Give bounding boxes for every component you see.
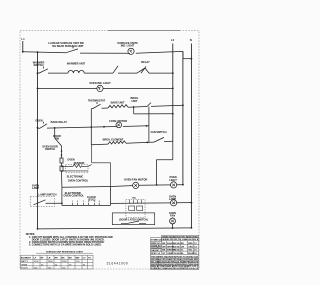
svg-text:TO: TO <box>88 258 91 260</box>
svg-text:WATTS: WATTS <box>21 260 29 263</box>
svg-text:FAN: FAN <box>170 213 175 217</box>
svg-text:WM: WM <box>76 258 80 260</box>
svg-text:WIRING DIAGRAM ELECTRIC RANGE: WIRING DIAGRAM ELECTRIC RANGE MODEL <box>162 236 199 239</box>
svg-text:OR: OR <box>181 247 185 249</box>
svg-text:RD: RD <box>181 243 185 245</box>
svg-text:1: 1 <box>72 201 73 203</box>
svg-text:L1: L1 <box>21 37 25 41</box>
svg-text:OVEN CONTROL: OVEN CONTROL <box>64 194 85 198</box>
svg-text:3. CONNECTORS WITH 12 GA WIRE: 3. CONNECTORS WITH 12 GA WIRE SHOWN IN B… <box>29 243 102 246</box>
svg-text:SERIES FEF352 P/N 316441000 RE: SERIES FEF352 P/N 316441000 REV A <box>162 238 198 241</box>
svg-text:ORG: ORG <box>188 247 193 249</box>
svg-text:OVEN: OVEN <box>67 157 74 161</box>
svg-text:BAKE UNIT: BAKE UNIT <box>111 101 125 105</box>
svg-text:N: N <box>190 38 192 42</box>
svg-text:THERMOSTAT: THERMOSTAT <box>88 98 106 102</box>
svg-text:VOLTS: VOLTS <box>21 268 28 270</box>
svg-text:316441000: 316441000 <box>107 262 129 266</box>
svg-text:BR: BR <box>162 250 166 252</box>
svg-text:5: 5 <box>94 201 95 203</box>
svg-text:14 GA: 14 GA <box>173 246 180 249</box>
svg-text:BK: BK <box>162 243 166 245</box>
svg-text:4: 4 <box>88 200 89 203</box>
svg-text:ELEMENT: ELEMENT <box>21 258 32 260</box>
svg-text:GAUGE 1: GAUGE 1 <box>151 249 161 252</box>
svg-text:2: 2 <box>77 201 78 203</box>
svg-text:(DOOR LATCH SWITCH): (DOOR LATCH SWITCH) <box>119 219 148 222</box>
svg-text:3: 3 <box>83 201 84 203</box>
svg-text:16 GA: 16 GA <box>173 249 180 252</box>
svg-text:BROIL ELEMENT: BROIL ELEMENT <box>103 138 124 142</box>
svg-text:SYMBOLS: SYMBOLS <box>151 240 162 242</box>
svg-text:OHMS: OHMS <box>21 264 28 266</box>
svg-text:14 GA: 14 GA <box>173 242 180 245</box>
svg-text:UNIT: UNIT <box>132 99 138 103</box>
svg-text:SENSOR: SENSOR <box>74 161 85 165</box>
svg-text:OVEN CONTROL: OVEN CONTROL <box>68 178 89 182</box>
svg-text:6: 6 <box>99 201 100 203</box>
svg-text:WH: WH <box>162 247 166 249</box>
svg-text:OVEN IND. LIGHT: OVEN IND. LIGHT <box>89 81 111 85</box>
svg-text:BR: BR <box>69 258 73 260</box>
svg-text:CONV. MOTOR: CONV. MOTOR <box>109 119 127 123</box>
svg-text:YEL: YEL <box>188 250 193 252</box>
svg-text:LAMP: LAMP <box>32 186 40 190</box>
svg-text:SURFACE UNIT RESISTANCE CHART: SURFACE UNIT RESISTANCE CHART <box>46 251 84 254</box>
svg-text:IND. LIGHT: IND. LIGHT <box>121 44 135 48</box>
svg-text:RH REAR SURFACE UNIT: RH REAR SURFACE UNIT <box>52 44 84 48</box>
svg-text:LAMP: LAMP <box>169 197 177 201</box>
svg-text:L2: L2 <box>171 38 175 42</box>
svg-text:BAKE RELAY: BAKE RELAY <box>51 120 68 124</box>
svg-text:FAN SWITCH: FAN SWITCH <box>151 130 167 134</box>
svg-text:BK: BK <box>62 258 66 260</box>
svg-text:OVEN FAN MOTOR: OVEN FAN MOTOR <box>124 177 147 181</box>
svg-text:SW: SW <box>55 137 60 141</box>
svg-text:THIS WIRING DIAGRAM APPLIES TO: THIS WIRING DIAGRAM APPLIES TO MODELS AS <box>151 255 199 258</box>
svg-text:LIGHT: LIGHT <box>169 178 177 182</box>
svg-text:SWITCH: SWITCH <box>33 63 43 67</box>
svg-text:RELAY: RELAY <box>141 60 150 64</box>
svg-text:WARMER UNIT: WARMER UNIT <box>67 62 86 66</box>
svg-text:18 GA: 18 GA <box>173 252 180 255</box>
svg-text:LAMP SWITCH: LAMP SWITCH <box>39 193 57 197</box>
svg-text:RR: RR <box>55 258 59 260</box>
svg-text:LR: LR <box>48 258 51 260</box>
svg-text:OVEN: OVEN <box>35 118 42 122</box>
svg-text:FORM NO 316441000 REV A PRINTE: FORM NO 316441000 REV A PRINTED U.S.A. 0… <box>151 267 199 270</box>
svg-text:RED: RED <box>188 243 193 245</box>
svg-text:ELECTRONIC: ELECTRONIC <box>67 175 84 179</box>
svg-text:SWITCH: SWITCH <box>45 147 55 151</box>
svg-text:SPEC 14: SPEC 14 <box>151 252 161 255</box>
